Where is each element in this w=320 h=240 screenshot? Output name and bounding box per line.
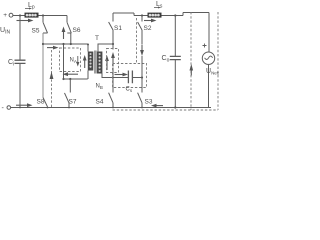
label S4 [96, 99, 104, 106]
svg-text:Co: Co [162, 55, 170, 64]
node bottom rail at S3 [141, 107, 143, 109]
current arrow bottom rail right [156, 105, 163, 107]
svg-text:S8: S8 [37, 99, 45, 106]
svg-text:S2: S2 [144, 25, 152, 32]
label C_o [162, 55, 170, 64]
svg-text:S5: S5 [32, 28, 40, 35]
terminal minus (bottom-left) [2, 105, 5, 112]
switch S5 [42, 16, 44, 23]
switch S8 [43, 98, 48, 107]
node bottom rail at S8 [47, 107, 49, 109]
wire S4 column [112, 68, 114, 93]
capacitor C_o column [174, 16, 176, 108]
node mag bottom [62, 78, 64, 80]
node A (primary top, leg A) [42, 43, 44, 45]
dashed box around S4 arrow [107, 49, 119, 73]
node C_o top [174, 14, 176, 16]
svg-text:UNetz: UNetz [206, 68, 219, 76]
label S8 [37, 99, 45, 106]
svg-text:+: + [3, 12, 7, 19]
svg-text:S4: S4 [96, 99, 104, 106]
capacitor C_s plates [128, 71, 132, 84]
svg-text:S1: S1 [114, 25, 122, 32]
node C_o bottom [174, 106, 176, 108]
wire source to bottom rail [208, 64, 210, 107]
wire leg2 lower [141, 56, 143, 93]
bottom rail [11, 107, 211, 109]
arrow under label L_p [25, 8, 30, 10]
node leg2 top [141, 14, 143, 16]
label U_IN [0, 27, 10, 36]
dashed bottom edge [113, 109, 219, 111]
dashed current loop line left (up arrow) [51, 50, 53, 107]
svg-text:NB: NB [96, 84, 103, 91]
wire leg A middle [42, 33, 44, 98]
top rail right [113, 13, 209, 16]
wire left winding bottom [87, 71, 89, 80]
label C_s [126, 87, 133, 94]
node S7 top [69, 78, 71, 80]
label S3 [145, 99, 153, 106]
wire secondary top [98, 44, 113, 52]
AC source U_Netz circle [202, 52, 214, 64]
wire S6 to primary top [70, 33, 72, 44]
label S7 [69, 99, 77, 106]
dashed line left of leg2 [136, 18, 138, 64]
wire top-left rail [13, 15, 67, 17]
node bottom rail at C_i [19, 107, 21, 109]
svg-text:S3: S3 [145, 99, 153, 106]
transformer T winding N_A (left) [88, 52, 94, 71]
label T [95, 35, 99, 42]
current arrow under L_s [144, 20, 152, 22]
label S6 [73, 27, 81, 34]
wire leg2 upper [141, 30, 143, 44]
wire left winding top [87, 44, 89, 52]
current arrow up on S4 column [112, 57, 114, 67]
terminal + (plus, top-left) [3, 12, 7, 19]
svg-text:T: T [95, 35, 99, 42]
label C_i [8, 59, 14, 68]
dashed box around C_s [113, 64, 147, 88]
svg-text:Cs: Cs [126, 87, 133, 94]
terminal circle top-left [9, 13, 13, 17]
switch S4 [109, 93, 113, 103]
transformer winding N_B (right) [97, 52, 103, 74]
inductor L_s [148, 13, 162, 18]
current arrow under L_p [17, 20, 30, 22]
grid branch wire down [208, 13, 210, 53]
current arrow up left of left winding [84, 60, 86, 69]
label L_s [156, 1, 163, 10]
arrow under label L_s [154, 7, 159, 9]
node secondary top at S1 leg [112, 43, 114, 45]
current arrow up at grid [190, 71, 192, 76]
label N_B [96, 84, 103, 91]
current arrow before C_s [115, 74, 124, 76]
label S1 [114, 25, 122, 32]
sine inside source [205, 56, 213, 59]
svg-text:-: - [2, 105, 5, 112]
terminal circle bottom-left [7, 106, 11, 110]
svg-text:S7: S7 [69, 99, 77, 106]
capacitor C_i plates [15, 60, 26, 63]
node bottom rail at S4 [112, 107, 114, 109]
label S5 [32, 28, 40, 35]
wire primary bottom (y79) [64, 78, 88, 80]
transformer core [95, 51, 96, 74]
dashed grid box left edge [190, 12, 192, 110]
plus sign at source [203, 44, 207, 48]
capacitor C_o plates [170, 56, 181, 59]
node mag top [62, 43, 64, 45]
wire primary top (y44) [43, 43, 88, 45]
svg-text:Ci: Ci [8, 59, 14, 68]
svg-text:S6: S6 [73, 27, 81, 34]
svg-text:UIN: UIN [0, 27, 10, 36]
node winding-left top corner [87, 44, 89, 46]
inductor L_p [25, 13, 39, 18]
current arrow up beside S6 [63, 31, 65, 39]
current arrow down on leg2 [141, 45, 143, 52]
label U_Netz [206, 68, 221, 76]
node leg A top [42, 14, 44, 16]
switch S1 [112, 13, 114, 22]
current arrow left above primary bottom wire [67, 73, 78, 75]
node S6 bottom [70, 43, 72, 45]
current arrow up right of right winding [106, 60, 108, 70]
switch S7 [69, 79, 71, 93]
wire secondary bottom [102, 74, 128, 78]
dashed box magnetizing branch N_A [60, 48, 81, 72]
capacitor C_i column wire [19, 16, 21, 108]
label L_p [28, 2, 35, 11]
label S2 [144, 25, 152, 32]
node bottom rail at S7 [68, 107, 70, 109]
magnetizing branch wire [63, 44, 65, 79]
dashed grid box right edge [217, 12, 219, 110]
current arrow i_p on primary top wire [47, 47, 54, 49]
switch S3 [138, 93, 142, 103]
label N_A [70, 58, 77, 65]
small down arrow in N_A box [77, 56, 79, 63]
wire C_s to leg2 [132, 77, 142, 79]
switch S2 [141, 16, 143, 22]
current arrow bottom rail left [16, 104, 28, 106]
svg-text:Ls: Ls [156, 1, 163, 10]
node C_s at leg2 [141, 76, 143, 78]
switch S6 [66, 16, 68, 23]
wire S4 stub under node [112, 44, 114, 50]
node C_i top [19, 14, 21, 16]
svg-text:NA: NA [70, 58, 77, 65]
